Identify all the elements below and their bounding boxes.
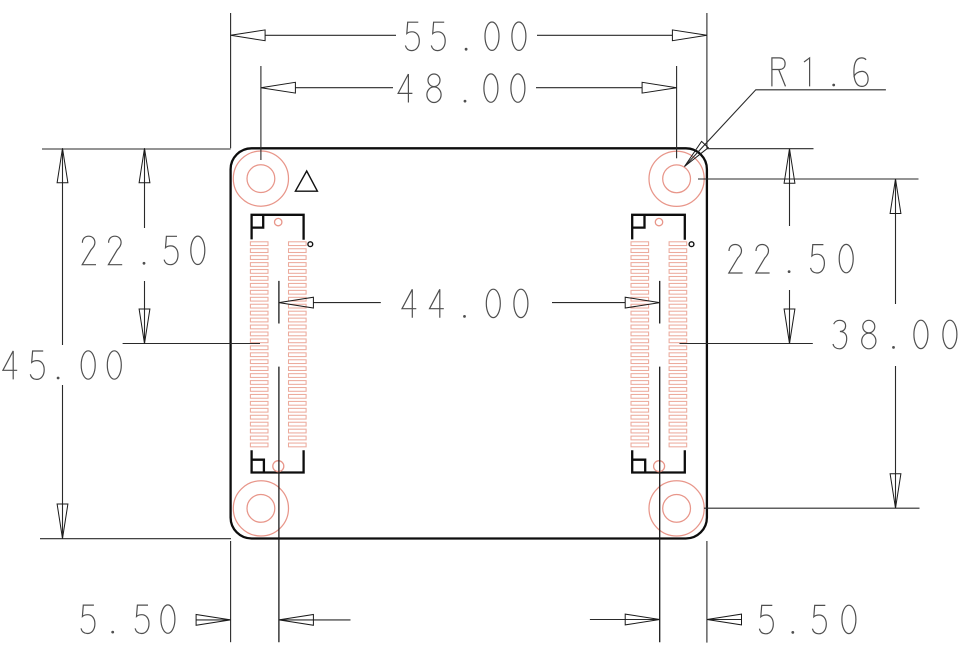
dimension text 5.50 (right) bbox=[759, 605, 856, 634]
dimension 55.00 line bbox=[265, 34, 672, 36]
mounting hole bottom-left (pad + R1.6 hole) bbox=[233, 481, 288, 536]
connector housing bottom bracket bbox=[632, 450, 685, 472]
dimension 22.50 line (left) bbox=[144, 148, 146, 343]
extension line: right hole centre extended up bbox=[676, 66, 678, 158]
connector pin-1 dot bbox=[689, 242, 694, 247]
connector polarity circle bottom bbox=[273, 461, 284, 472]
connector centerline bbox=[659, 281, 661, 642]
extension line: board left edge extended down bbox=[230, 541, 232, 642]
connector polarity circle bottom bbox=[654, 461, 665, 472]
connector polarity circle top bbox=[655, 218, 662, 225]
connector pin rows (2 columns of contacts) bbox=[631, 242, 687, 447]
extension line: board bottom edge extended left bbox=[40, 538, 231, 540]
dimension 48.00 line bbox=[295, 87, 642, 89]
extension line: top-right hole centre extended right bbox=[698, 178, 919, 180]
connector housing top bracket bbox=[632, 215, 685, 240]
connector pin-1 dot bbox=[308, 242, 313, 247]
dimension 38.00 line (hole spacing vertical) bbox=[895, 179, 897, 508]
extension line: board right edge extended up bbox=[706, 13, 708, 148]
dimension 5.50 (bottom right) bbox=[590, 619, 742, 621]
connector housing bottom bracket bbox=[252, 450, 304, 472]
mounting hole top-right (pad + R1.6 hole) bbox=[649, 151, 704, 206]
dimension 44.00 line (connector spacing) bbox=[313, 302, 625, 304]
dimension text 45.00 bbox=[3, 351, 121, 380]
radius text R1.6 bbox=[772, 58, 868, 87]
extension line: board left edge extended up bbox=[230, 13, 232, 148]
connector housing top bracket bbox=[252, 215, 304, 240]
extension line: board top edge extended left bbox=[42, 148, 231, 150]
extension line: board top edge extended right bbox=[707, 148, 814, 150]
dimension text 38.00 bbox=[833, 320, 957, 349]
extension line: board right edge extended down bbox=[706, 541, 708, 643]
dimension text 55.00 bbox=[405, 22, 526, 51]
pin-1 triangle marker bbox=[295, 171, 317, 191]
leader line for R1.6 bbox=[685, 90, 886, 167]
mounting hole bottom-right (pad + R1.6 hole) bbox=[649, 481, 704, 536]
connector centerline bbox=[278, 281, 280, 642]
board outline (55 x 45 mm module, rounded corners) bbox=[231, 148, 707, 538]
dimension 45.00 line (left, full height) bbox=[62, 148, 64, 538]
extension line: board mid-height left bbox=[123, 343, 260, 345]
extension line: board mid-height right bbox=[680, 343, 813, 345]
dimension text 44.00 bbox=[402, 289, 528, 318]
dimension text 22.50 (left) bbox=[82, 236, 205, 265]
dimension 5.50 (bottom left) bbox=[196, 619, 350, 621]
dimension text 5.50 (left) bbox=[81, 605, 175, 634]
extension line: bottom-right hole centre extended right bbox=[704, 507, 920, 509]
connector polarity circle top bbox=[275, 218, 282, 225]
dimension 22.50 line (right) bbox=[789, 149, 791, 344]
extension line: left hole centre extended up bbox=[260, 66, 262, 160]
connector pin rows (2 columns of contacts) bbox=[250, 242, 306, 447]
mounting hole top-left (pad + R1.6 hole) bbox=[233, 151, 288, 206]
dimension text 48.00 bbox=[398, 74, 525, 103]
dimension text 22.50 (right) bbox=[729, 244, 853, 273]
